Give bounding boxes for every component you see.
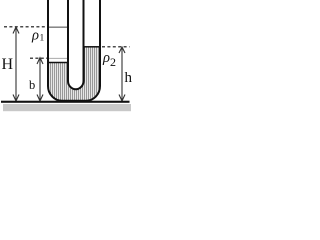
svg-text:2: 2	[110, 55, 116, 69]
dashed line right (h level)	[102, 46, 130, 48]
dashed line mid-left (b level)	[30, 57, 47, 59]
arrow h bottom head	[119, 95, 125, 102]
arrow b top head	[37, 58, 43, 64]
svg-text:ρ: ρ	[102, 50, 110, 66]
rho2 surface in right tube	[84, 46, 100, 48]
svg-text:H: H	[2, 56, 14, 73]
svg-text:h: h	[125, 70, 133, 86]
arrow b shaft	[39, 59, 41, 101]
ground line	[1, 101, 130, 103]
U-tube inner wall	[68, 0, 84, 89]
svg-text:ρ: ρ	[31, 28, 39, 44]
faint level line across left tube	[49, 57, 67, 59]
liquid rho1 top surface (gray)	[49, 26, 67, 28]
ground gray slab	[3, 104, 131, 111]
background	[0, 0, 135, 117]
arrow H top head	[13, 27, 19, 34]
arrow H shaft	[15, 28, 17, 100]
U-tube manometer diagram	[0, 0, 135, 117]
liquid rho2 (hatched)	[48, 47, 100, 101]
dashed line top-left (H level)	[4, 26, 47, 28]
arrow H bottom head	[13, 95, 19, 102]
arrow h shaft	[121, 48, 123, 101]
rho1/rho2 interface line	[48, 62, 68, 64]
svg-text:1: 1	[40, 34, 45, 44]
arrow b bottom head	[37, 95, 43, 102]
U-tube outer wall	[48, 0, 100, 101]
svg-text:b: b	[29, 78, 35, 92]
arrow h top head	[119, 47, 125, 53]
